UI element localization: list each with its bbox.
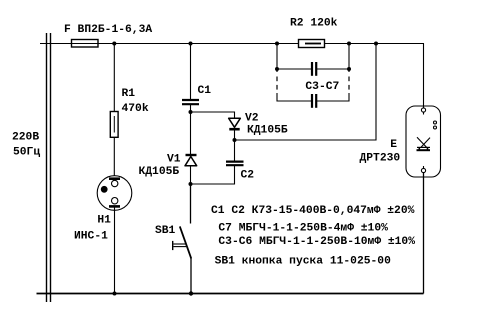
fuse F bbox=[72, 40, 99, 48]
lamp E bottom electrode bbox=[421, 166, 425, 173]
wire top rail to C1 bbox=[190, 44, 192, 100]
resistor R1 bbox=[110, 112, 118, 138]
node C bbox=[233, 138, 237, 142]
node C3 right bbox=[347, 67, 351, 71]
wire top rail to R1 bbox=[113, 44, 115, 112]
wire C1 to node A bbox=[190, 104, 192, 112]
wire bottom rail bbox=[37, 293, 424, 295]
wire node C to top rail bbox=[235, 44, 377, 141]
svg-text:R1: R1 bbox=[122, 88, 136, 100]
capacitor C1 bbox=[182, 100, 199, 104]
svg-text:SB1: SB1 bbox=[155, 225, 176, 237]
svg-text:КД105Б: КД105Б bbox=[139, 166, 180, 178]
wire H1 to bottom rail bbox=[114, 206, 116, 293]
wire V1 to node B bbox=[190, 166, 192, 184]
svg-text:ИНС-1: ИНС-1 bbox=[74, 231, 108, 243]
diode V2 bbox=[229, 118, 241, 129]
lamp E arc symbol bbox=[417, 137, 431, 150]
wire node B to SB1 bbox=[190, 184, 192, 224]
node top C3 left bbox=[275, 42, 279, 46]
svg-text:Е: Е bbox=[390, 139, 397, 151]
svg-text:С1 С2 К73-15-400В-0,047мФ ±20%: С1 С2 К73-15-400В-0,047мФ ±20% bbox=[211, 205, 415, 217]
wire top rail to C3 left bbox=[276, 44, 278, 70]
node A bbox=[189, 110, 193, 114]
node bottom SB1 bbox=[189, 291, 193, 295]
label Е ДРТ230 bbox=[360, 139, 401, 165]
wire C2 to node B bbox=[191, 165, 235, 184]
svg-text:C1: C1 bbox=[198, 85, 212, 97]
lamp E top electrode bbox=[421, 106, 425, 115]
dashed extension line left bbox=[276, 69, 278, 90]
wire node C to C2 bbox=[234, 140, 236, 161]
resistor R2 bbox=[299, 40, 325, 48]
svg-text:ДРТ230: ДРТ230 bbox=[360, 153, 401, 165]
diode V1 bbox=[185, 155, 197, 166]
wire SB1 to bottom rail bbox=[190, 258, 192, 294]
wire top rail to C3 right bbox=[348, 44, 350, 70]
label 220В 50Гц bbox=[12, 132, 40, 159]
svg-text:С3-С6 МБГЧ-1-1-250В-10мФ ±10%: С3-С6 МБГЧ-1-1-250В-10мФ ±10% bbox=[218, 236, 415, 248]
svg-text:F ВП2Б-1-6,3А: F ВП2Б-1-6,3А bbox=[64, 24, 152, 36]
node top C3 right bbox=[347, 42, 351, 46]
node B bbox=[189, 182, 193, 186]
svg-text:50Гц: 50Гц bbox=[13, 147, 40, 159]
svg-text:V2: V2 bbox=[245, 113, 259, 125]
svg-text:КД105Б: КД105Б bbox=[247, 124, 288, 136]
wire top rail bbox=[40, 43, 424, 45]
node top R1 bbox=[112, 42, 116, 46]
svg-text:С3-С7: С3-С7 bbox=[305, 81, 339, 93]
pushbutton SB1 bbox=[173, 226, 192, 258]
wire top rail to lamp bbox=[423, 44, 425, 109]
label V1 КД105Б bbox=[139, 154, 181, 178]
node bottom H1 bbox=[113, 292, 117, 296]
wire node A to V2 bbox=[191, 112, 235, 118]
node top rail right bbox=[374, 42, 378, 46]
wire R1 to H1 bbox=[113, 137, 115, 178]
notes text block bbox=[211, 205, 415, 267]
wire lamp bottom to bottom rail bbox=[423, 173, 425, 294]
node top C1 bbox=[189, 42, 193, 46]
lamp E auxiliary dots bbox=[434, 121, 437, 129]
node C3 left bbox=[275, 67, 279, 71]
wire capacitor C3 row bbox=[277, 68, 349, 70]
svg-text:470k: 470k bbox=[122, 103, 149, 115]
wire capacitor bottom row bbox=[277, 93, 349, 101]
neon lamp H1 bbox=[97, 176, 132, 211]
lamp E envelope bbox=[406, 106, 441, 177]
svg-text:С7 МБГЧ-1-1-250В-4мФ ±10%: С7 МБГЧ-1-1-250В-4мФ ±10% bbox=[218, 222, 388, 234]
dashed extension line right bbox=[348, 69, 350, 90]
label H1 ИНС-1 bbox=[74, 215, 111, 243]
wire node A to V1 bbox=[190, 112, 192, 155]
svg-text:220В: 220В bbox=[12, 132, 39, 144]
capacitor C7 bottom row plates bbox=[312, 94, 316, 108]
label R1 470k bbox=[122, 88, 149, 115]
svg-text:C2: C2 bbox=[241, 170, 255, 182]
label V2 КД105Б bbox=[245, 113, 288, 137]
capacitor C2 bbox=[226, 162, 244, 166]
svg-text:H1: H1 bbox=[97, 215, 111, 227]
svg-text:R2 120k: R2 120k bbox=[290, 17, 338, 29]
mains input terminals bbox=[47, 33, 51, 302]
capacitor C3 top row plates bbox=[312, 62, 316, 76]
wire V2 to node C bbox=[234, 129, 236, 140]
svg-text:V1: V1 bbox=[167, 154, 181, 166]
svg-text:SB1 кнопка пуска 11-025-00: SB1 кнопка пуска 11-025-00 bbox=[215, 255, 391, 267]
